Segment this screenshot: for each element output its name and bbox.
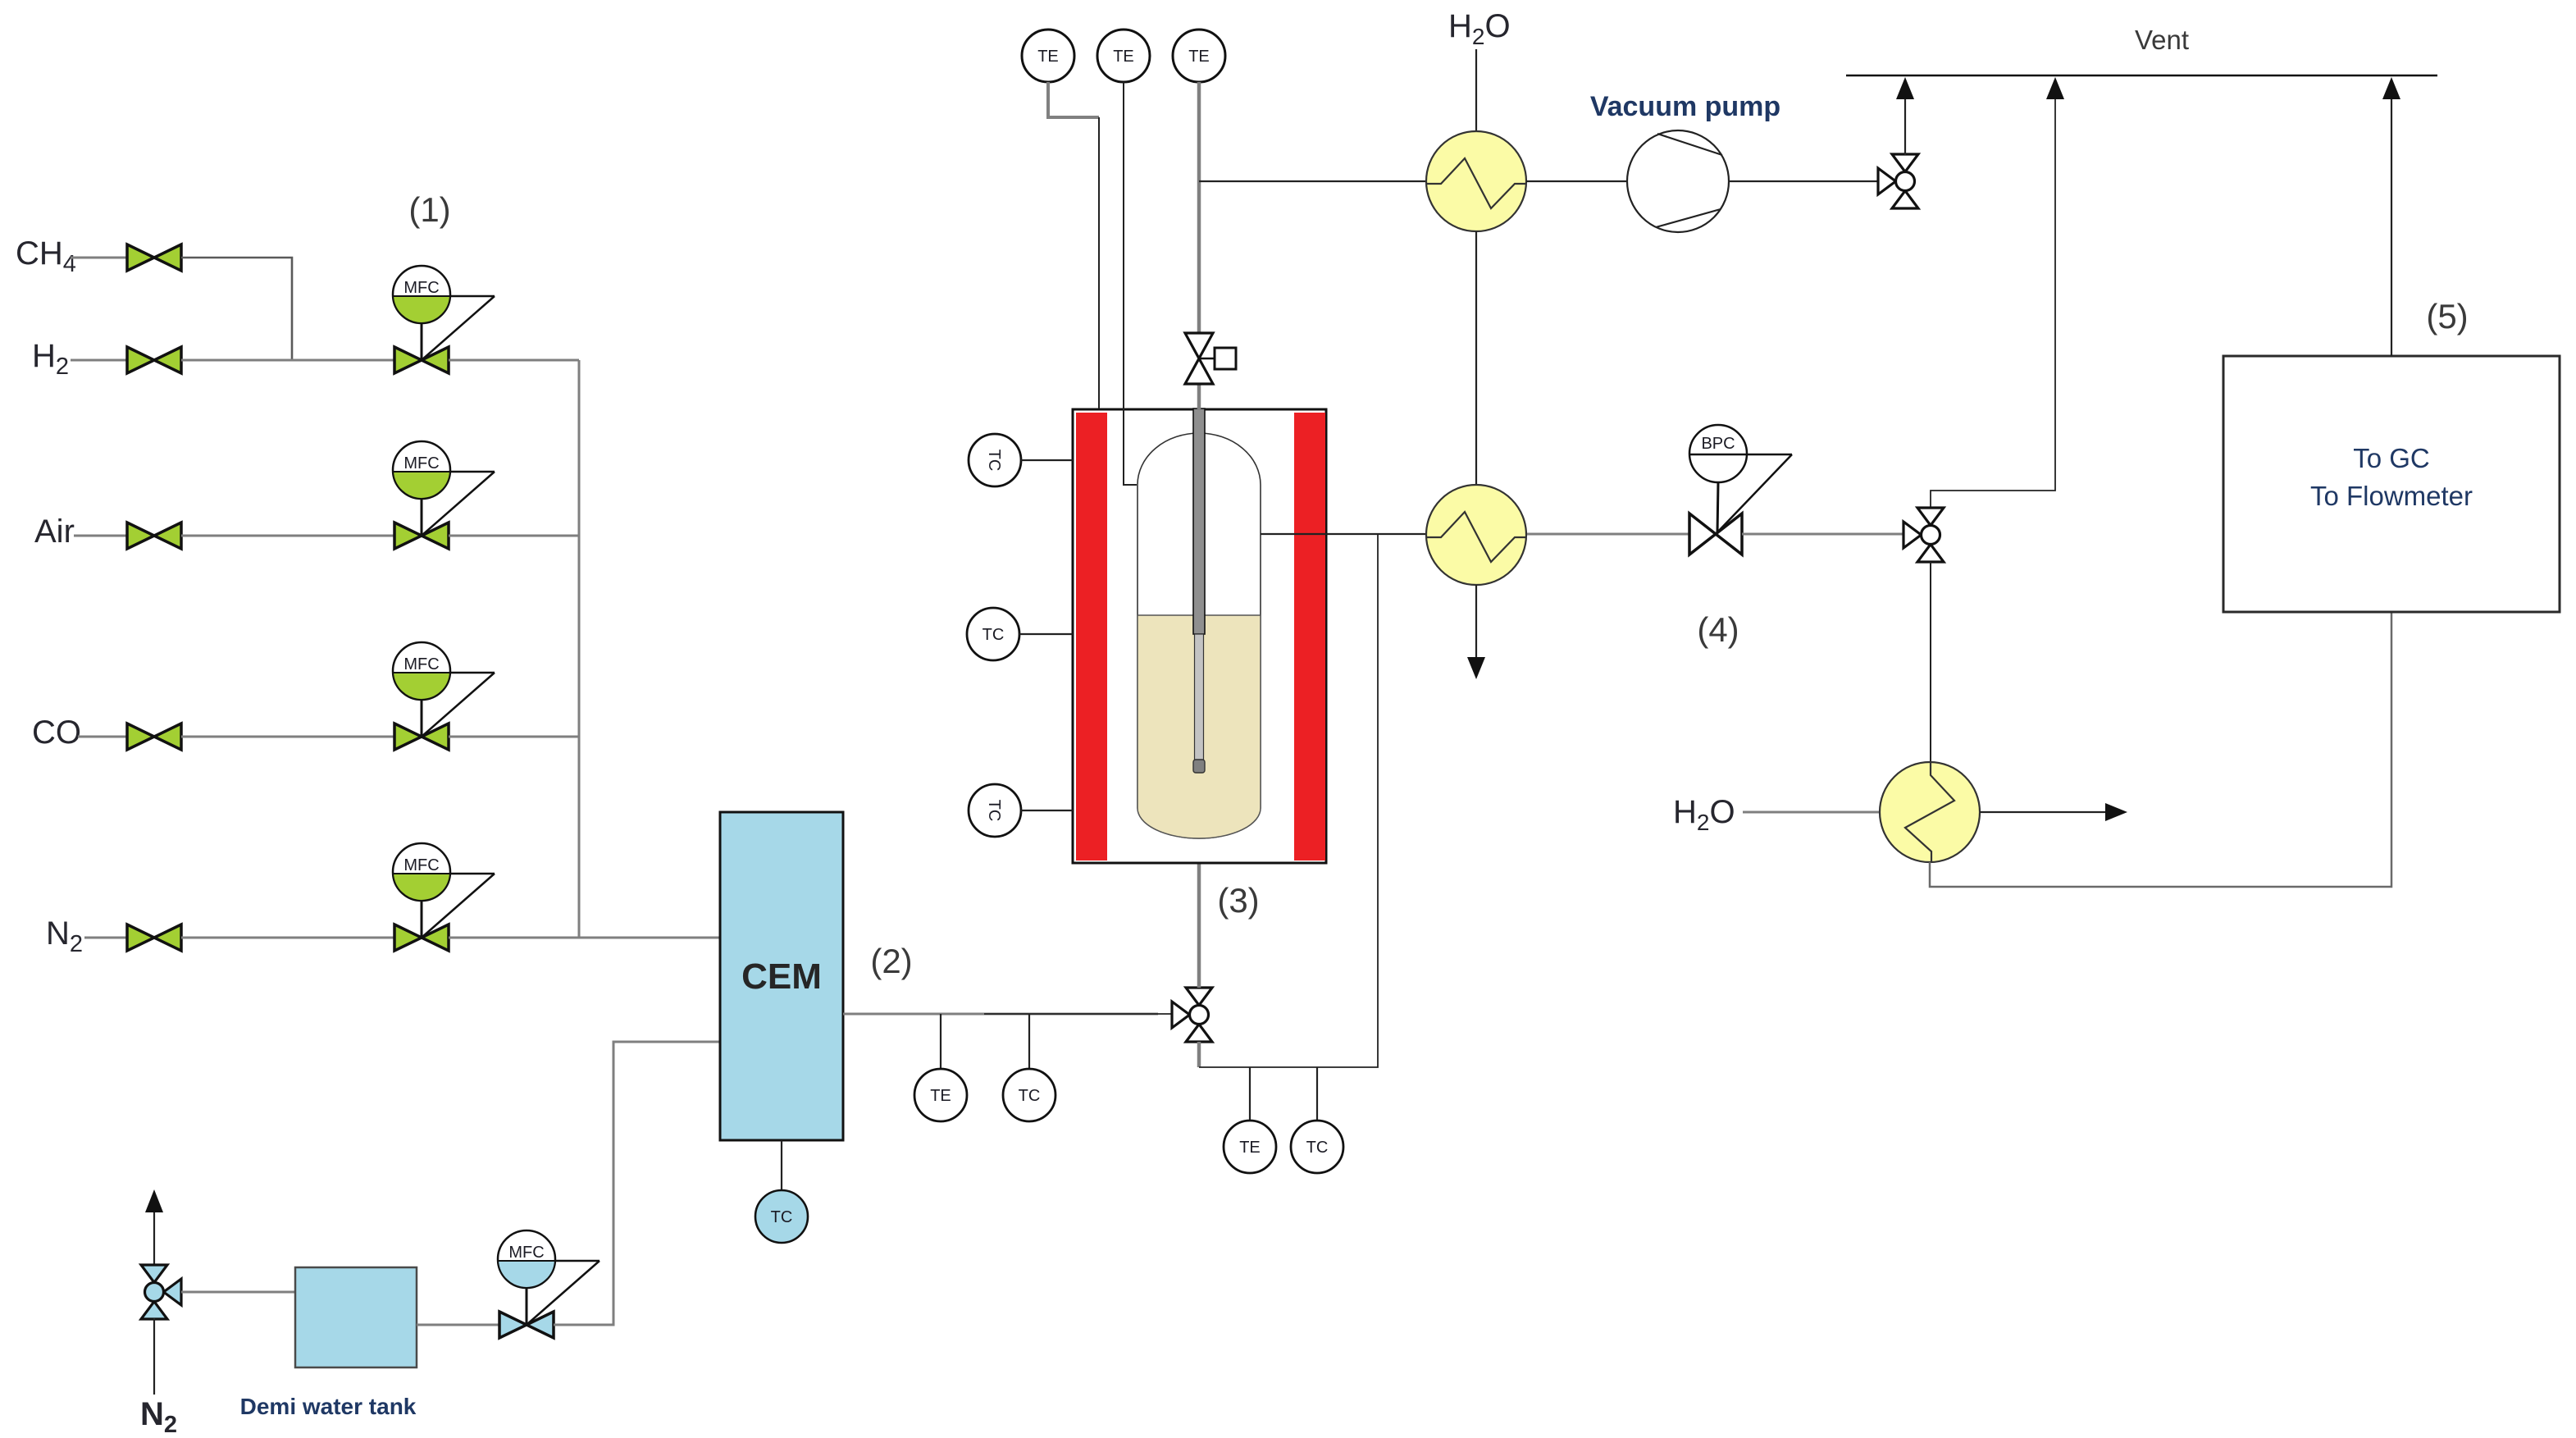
wire stub TE bypass [1249,1067,1251,1121]
wire pump to 3-way valve [1729,180,1878,182]
wire CO valve to MFC3 [181,736,394,738]
valve 3-way GC vent [1904,508,1944,562]
wire TE3 to valve [1197,82,1201,333]
reactor liquid [1138,615,1261,838]
wire MFC1 to bus [449,359,579,362]
svg-text:CEM: CEM [741,956,822,997]
node N2 bottom label [140,1396,177,1438]
svg-text:TC: TC [983,626,1005,644]
stirrer shaft upper [1193,409,1205,634]
vent header line [1846,75,2437,77]
arrow HX3 water out [2105,803,2127,821]
MFC3 [393,642,495,750]
valve solenoid reactor top [1185,333,1236,384]
svg-text:TE: TE [1239,1139,1261,1157]
wire reactor bypass [1199,534,1378,1067]
instrument TE bypass [1224,1121,1276,1173]
node H2O top label [1448,8,1511,49]
wire HX3 water out [1980,811,2108,813]
wire MFC2 to bus [449,535,579,537]
arrow vent 2 [2046,77,2064,99]
svg-text:Vacuum pump: Vacuum pump [1590,91,1780,122]
wire H2 label to valve [71,359,127,362]
instrument TC furnace top [969,434,1021,486]
svg-text:Air: Air [34,514,75,550]
wire GC box to vent [2391,99,2392,356]
instrument TE2 [1097,30,1150,82]
wire H2O to HX3 [1743,811,1880,814]
instrument TE3 [1173,30,1225,82]
MFC1 [393,266,495,373]
label (2) [870,942,912,980]
valve 3-way reactor feed [1172,988,1212,1042]
wire MFC3 to bus [449,736,579,738]
svg-text:TC: TC [985,800,1003,822]
svg-text:TC: TC [1019,1087,1041,1105]
wire CEM to TC [781,1140,782,1190]
label To Flowmeter [2310,481,2473,511]
label (4) [1697,610,1739,649]
MFC2 [393,441,495,549]
instrument TC CEM [755,1190,808,1243]
wire Air label to valve [74,535,127,537]
wire CH4 label to valve [71,257,127,259]
label (3) [1217,881,1259,920]
arrow vent 3 [2382,77,2400,99]
valve N2 inlet [127,924,181,951]
svg-text:CO: CO [32,714,81,751]
instrument TC furnace mid [967,608,1019,660]
wire bypass vent riser [1931,99,2055,508]
valve back pressure control [1689,514,1742,555]
wire valve to demi tank [181,1291,295,1294]
wire HX1 to vacuum pump [1526,180,1627,182]
instrument TC after CEM [1003,1069,1055,1121]
wire valve to reactor bottom [1197,838,1201,988]
node CO feed label [32,714,81,751]
wire stub TE after CEM [940,1014,941,1069]
node N2 feed label [46,915,83,957]
wire valve to vent [1904,99,1906,155]
heat exchanger HX3 [1880,762,1980,862]
valve H2 inlet [127,347,181,373]
reactor vessel [1138,433,1261,838]
furnace body [1073,409,1326,863]
wire gas bus vertical [578,360,581,938]
svg-text:To Flowmeter: To Flowmeter [2310,481,2473,511]
wire tank to MFC5 [417,1324,499,1326]
valve 3-way vacuum vent [1878,154,1918,208]
valve 3-way demi water N2 [141,1265,181,1319]
wire N2 label to valve [84,937,127,939]
wire stub TC after CEM [1028,1014,1030,1069]
arrow N2 purge vent [145,1189,163,1212]
wire TE2 into furnace [1124,82,1137,485]
svg-text:(2): (2) [870,942,912,980]
wire N2 line to CEM [449,937,720,939]
wire CO label to valve [78,736,127,738]
wire vessel outlet to HX2 [1261,533,1426,535]
label Vent [2135,25,2189,55]
svg-text:(4): (4) [1697,610,1739,649]
heat exchanger HX2 [1426,485,1526,585]
wire Air valve to MFC2 [181,535,394,537]
wire valve to N2 bottom label [153,1318,155,1395]
arrow HX2 drain [1467,657,1485,679]
instrument TC bypass [1291,1121,1343,1173]
node Air feed label [34,514,75,550]
instrument TE1 [1022,30,1074,82]
furnace heater left [1076,413,1107,861]
instrument TE after CEM [914,1069,967,1121]
label (1) [408,190,450,229]
node H2O bottom label [1673,794,1735,835]
wire reactor head to condenser [1199,180,1426,182]
wire stub TC bypass [1316,1067,1318,1121]
svg-text:To GC: To GC [2353,443,2430,473]
wire BPC valve to 3-way [1742,533,1904,536]
wire CEM outlet to 3-way valve [843,1013,1158,1016]
wire TC furnace top [1021,459,1073,461]
wire 3-way to HX3 [1930,562,1931,762]
vacuum pump [1627,130,1729,232]
wire TE1 to furnace [1048,82,1099,117]
svg-text:BPC: BPC [1701,435,1735,453]
node CH4 feed label [16,235,76,277]
heat exchanger HX1 [1426,131,1526,231]
instrument BPC [1689,425,1792,534]
svg-text:TC: TC [985,450,1003,472]
wire N2 valve to MFC4 [181,937,394,939]
wire H2 valve to MFC1 [181,359,394,362]
svg-text:(3): (3) [1217,881,1259,920]
wire HX1 to HX2 [1475,231,1477,485]
label Vacuum pump [1590,91,1780,122]
svg-text:TE: TE [1113,48,1134,66]
stirrer tip [1193,760,1205,773]
instrument TC furnace bottom [969,784,1021,837]
svg-text:Vent: Vent [2135,25,2189,55]
svg-text:TE: TE [1188,48,1210,66]
svg-text:(5): (5) [2426,297,2468,336]
node H2 feed label [32,338,69,380]
wire valve to stirrer [1197,384,1201,410]
label To GC [2353,443,2430,473]
svg-text:TC: TC [771,1208,793,1226]
wire valve bottom stub [1197,1042,1201,1067]
wire CH4 valve to junction [181,258,292,360]
label CEM [741,956,822,997]
label Demi water tank [240,1394,417,1419]
stirrer shaft lower [1195,634,1204,760]
MFC4 [393,843,495,951]
valve CH4 inlet [127,244,181,271]
svg-text:Demi water tank: Demi water tank [240,1394,417,1419]
wire HX2 drain [1475,585,1477,657]
furnace heater right [1294,413,1325,861]
wire H2O to condenser 1 [1475,49,1477,131]
wire HX3 to GC box [1930,612,2391,887]
CEM unit [720,812,843,1140]
svg-text:TE: TE [930,1087,951,1105]
wire MFC5 to CEM [554,1042,720,1325]
wire TC furnace mid [1019,633,1073,635]
valve Air inlet [127,523,181,549]
label (5) [2426,297,2468,336]
svg-text:TE: TE [1037,48,1059,66]
analysis box To GC / To Flowmeter [2223,356,2560,612]
arrow vent 1 [1896,77,1914,99]
wire N2 purge vent line [153,1212,155,1266]
wire HX2 to BPC valve [1527,533,1689,536]
svg-text:TC: TC [1306,1139,1329,1157]
MFC5 water [498,1230,600,1338]
wire TC furnace bottom [1021,810,1073,811]
demi water tank [295,1267,417,1367]
valve CO inlet [127,724,181,750]
svg-text:(1): (1) [408,190,450,229]
